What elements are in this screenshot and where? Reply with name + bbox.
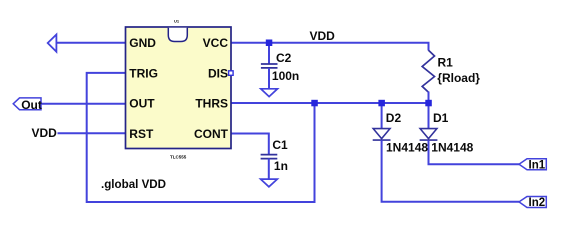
notch (168, 28, 187, 42)
wire OUT pin (41, 103, 126, 105)
wire RST pin (58, 132, 126, 134)
svg-text:VDD: VDD (32, 126, 58, 140)
pin DIS open marker (229, 71, 234, 76)
wire TRIG to bottom rail to THRS (U shape) (87, 73, 315, 202)
svg-text:Out: Out (21, 98, 42, 112)
svg-text:R1: R1 (438, 55, 454, 69)
wire D1 bottom to In1 (429, 140, 520, 164)
wire D2 top (381, 103, 383, 129)
diode D2 (373, 129, 391, 141)
svg-text:C1: C1 (272, 138, 288, 152)
svg-text:DIS: DIS (208, 66, 228, 80)
port tag In2 (519, 197, 546, 208)
capacitor C1 (261, 155, 278, 159)
svg-text:C2: C2 (276, 51, 292, 65)
wire C2 bottom (268, 68, 270, 88)
wire THRS rail (231, 102, 429, 104)
svg-text:In2: In2 (529, 197, 546, 209)
wire VCC to R1 top rail (231, 43, 429, 51)
wire C1 bottom (268, 159, 270, 179)
svg-text:100n: 100n (272, 69, 299, 83)
resistor R1 (422, 50, 434, 92)
svg-text:OUT: OUT (129, 97, 155, 111)
svg-text:D1: D1 (433, 111, 449, 125)
diode D1 (420, 129, 438, 141)
wire R1 bottom lead (428, 92, 430, 104)
svg-text:{Rload}: {Rload} (437, 71, 480, 85)
svg-text:VCC: VCC (203, 36, 229, 50)
svg-text:GND: GND (129, 36, 156, 50)
svg-text:.global VDD: .global VDD (101, 178, 166, 191)
svg-text:D2: D2 (386, 111, 402, 125)
svg-text:1N4148: 1N4148 (431, 141, 473, 155)
wire GND pin (56, 42, 125, 44)
junction node (R1 / D1) (425, 100, 432, 107)
svg-text:1n: 1n (274, 159, 288, 173)
svg-text:CONT: CONT (194, 127, 229, 141)
svg-text:THRS: THRS (195, 97, 228, 111)
junction node (THRS / TRIG tie) (311, 100, 318, 107)
ground (C1) (261, 179, 278, 187)
port tag Out (13, 98, 41, 110)
svg-text:TLC555: TLC555 (170, 155, 187, 160)
port tag In1 (519, 159, 546, 170)
ground (C2) (261, 89, 278, 97)
svg-text:1N4148: 1N4148 (386, 141, 428, 155)
junction node (C2 on VCC rail) (266, 40, 273, 47)
junction node (D2 on THRS rail) (378, 100, 385, 107)
wire C2 top (268, 43, 270, 64)
svg-text:In1: In1 (529, 160, 546, 172)
svg-text:RST: RST (129, 127, 154, 141)
port arrow GND (top-left) (48, 35, 57, 52)
svg-text:TRIG: TRIG (129, 66, 158, 80)
svg-text:U1: U1 (174, 19, 180, 24)
svg-text:VDD: VDD (310, 29, 336, 43)
op-amp U1 (TLC555 IC body) (126, 27, 232, 149)
capacitor C2 (261, 64, 278, 68)
wire D1 top (428, 103, 430, 129)
wire CONT to C1 (231, 134, 269, 155)
wire D2 bottom to In2 (382, 140, 519, 202)
